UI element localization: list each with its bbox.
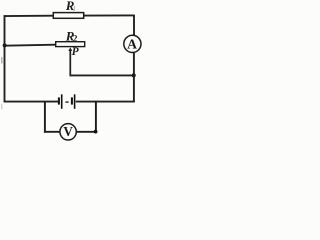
battery cell 2 negative plate (short thick): [71, 97, 73, 104]
wire: voltmeter rail left: [44, 131, 61, 133]
stray scan mark lower: [1, 104, 2, 110]
battery cell 1 positive plate (long thin): [61, 94, 63, 109]
battery cell 2 positive plate (long thin): [74, 94, 76, 109]
wire: middle branch from left wire to R2: [5, 45, 56, 46]
wire: slider to right vertical: [70, 74, 135, 76]
svg-text:P: P: [72, 46, 80, 58]
wire: right vertical upper, top-right corner down to ammeter top: [133, 15, 135, 37]
wire: top left segment, top-left corner to R1: [4, 15, 54, 17]
wire: left vertical, top-left corner down to bottom-left corner: [4, 15, 6, 102]
svg-text:2: 2: [73, 33, 78, 43]
wire: top right segment, R1 to top-right corner: [84, 14, 135, 16]
wire: faint link between cells: [65, 101, 68, 103]
stray scan mark upper: [1, 57, 2, 64]
node: junction dot on left wire: [3, 43, 7, 47]
rheostat R2 box: [56, 42, 85, 47]
svg-text:1: 1: [73, 5, 77, 13]
battery cell 1 negative plate (short thick): [58, 97, 60, 104]
svg-text:A: A: [127, 36, 137, 51]
wire: voltmeter rail right: [76, 131, 97, 133]
rheostat slider arrow P: [68, 48, 72, 51]
wire: right vertical lower, ammeter bottom to bottom-right corner: [133, 52, 135, 103]
voltmeter V: [60, 124, 76, 140]
node: junction dot on right wire: [132, 73, 136, 77]
wire: voltmeter branch left stub: [44, 101, 46, 133]
svg-text:V: V: [63, 124, 73, 139]
node: thick corner blob right: [94, 130, 98, 134]
ammeter A: [124, 35, 141, 52]
resistor R1 box: [53, 13, 83, 19]
wire: bottom left segment, bottom-left corner to battery: [4, 101, 58, 103]
wire: voltmeter branch right stub: [95, 101, 97, 133]
wire: bottom right segment, battery to bottom-right corner: [76, 101, 135, 103]
